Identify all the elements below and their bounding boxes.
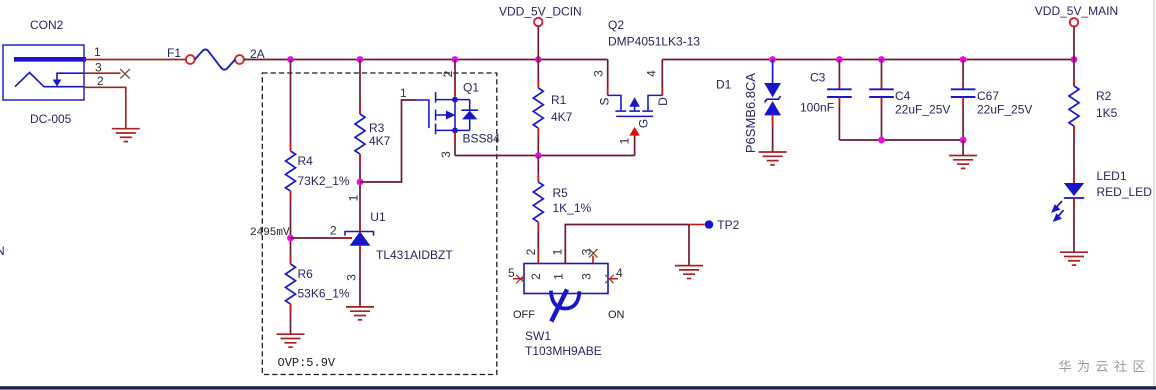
wire rail to C67 xyxy=(962,60,964,90)
svg-text:5: 5 xyxy=(508,266,515,280)
svg-text:D: D xyxy=(656,97,670,106)
test point TP2 xyxy=(689,224,705,226)
svg-text:CON2: CON2 xyxy=(30,18,64,32)
svg-text:VDD_5V_MAIN: VDD_5V_MAIN xyxy=(1035,4,1118,18)
capacitor C4 22uF_25V xyxy=(869,89,894,97)
connector CON2 (DC-005) xyxy=(3,45,86,100)
wire rail to R4 xyxy=(290,60,292,152)
wire Q1 drain to Q2 gate row xyxy=(455,155,635,157)
wire rail to R3 xyxy=(359,60,361,115)
svg-text:DMP4051LK3-13: DMP4051LK3-13 xyxy=(608,35,700,49)
resistor R3 xyxy=(355,114,365,154)
wire TP2 row to ground xyxy=(688,225,690,266)
svg-text:1: 1 xyxy=(347,194,361,201)
capacitor C3 100nF xyxy=(827,89,852,97)
ground (LED1) xyxy=(1060,252,1088,265)
svg-text:1: 1 xyxy=(551,248,565,255)
svg-text:ON: ON xyxy=(608,309,625,321)
svg-text:TL431AIDBZT: TL431AIDBZT xyxy=(376,248,453,262)
svg-text:C4: C4 xyxy=(895,89,911,103)
svg-text:1K5: 1K5 xyxy=(1096,106,1118,120)
svg-text:VDD_5V_DCIN: VDD_5V_DCIN xyxy=(499,5,582,19)
svg-text:华为云社区: 华为云社区 xyxy=(1058,359,1151,374)
right page border xyxy=(1153,0,1155,386)
svg-text:1: 1 xyxy=(94,45,101,59)
svg-text:100nF: 100nF xyxy=(800,101,834,115)
wire C3 bottom xyxy=(838,97,840,140)
bottom schematic frame bar xyxy=(0,386,1156,389)
svg-text:DC-005: DC-005 xyxy=(30,112,72,126)
svg-text:22uF_25V: 22uF_25V xyxy=(895,103,950,117)
svg-text:U1: U1 xyxy=(370,210,386,224)
junction node xyxy=(535,152,542,159)
wire R1 to gate row xyxy=(537,128,539,156)
wire LED1 to ground xyxy=(1073,198,1075,252)
svg-text:R2: R2 xyxy=(1096,89,1112,103)
svg-text:2: 2 xyxy=(330,224,337,238)
svg-text:R6: R6 xyxy=(298,267,314,281)
svg-text:2: 2 xyxy=(524,248,538,255)
svg-text:C3: C3 xyxy=(810,71,826,85)
ground (capacitors) xyxy=(949,156,977,169)
svg-text:3: 3 xyxy=(439,151,453,158)
resistor R6 xyxy=(290,255,292,264)
svg-text:4: 4 xyxy=(645,70,659,77)
svg-text:R4: R4 xyxy=(298,154,314,168)
svg-text:2: 2 xyxy=(441,70,455,77)
svg-text:3: 3 xyxy=(580,273,594,280)
ground (U1) xyxy=(346,307,374,320)
svg-text:R1: R1 xyxy=(551,93,567,107)
svg-text:2: 2 xyxy=(97,74,104,88)
switch SW1 T103MH9ABE xyxy=(524,264,608,294)
wire node to U1 ref pin 2 xyxy=(291,237,353,239)
wire cap bottom row xyxy=(839,139,963,141)
wire node to R5 xyxy=(537,156,539,183)
svg-text:RED_LED: RED_LED xyxy=(1097,185,1153,199)
svg-text:4K7: 4K7 xyxy=(369,134,391,148)
node 2495mV xyxy=(287,235,294,242)
svg-text:D1: D1 xyxy=(716,78,732,92)
SW1 lever xyxy=(551,291,580,309)
OVP dashed box xyxy=(262,73,497,375)
ground (D1) xyxy=(759,152,787,165)
svg-text:4: 4 xyxy=(616,266,623,280)
wire C67 bottom xyxy=(962,97,964,140)
svg-text:F1: F1 xyxy=(167,46,181,60)
svg-text:2: 2 xyxy=(529,273,543,280)
wire rail to C4 xyxy=(881,60,883,90)
wire VDD_5V_MAIN rail xyxy=(662,59,1074,61)
wire gate node to Q1 pin 1 xyxy=(360,100,416,182)
resistor R4 xyxy=(286,151,296,191)
svg-text:4K7: 4K7 xyxy=(551,110,573,124)
wire C4 bottom xyxy=(881,97,883,140)
wire SW1 pin 1 to TP2 xyxy=(565,225,689,264)
op-amp U1 TL431AIDBZT xyxy=(345,232,374,236)
svg-text:TP2: TP2 xyxy=(717,218,739,232)
ground (R6) xyxy=(277,334,305,347)
capacitor C67 22uF_25V xyxy=(951,89,976,97)
svg-text:2495mV: 2495mV xyxy=(250,227,290,239)
wire to ground under C67 xyxy=(962,140,964,156)
ground (CON2 pin 2) xyxy=(112,129,140,142)
wire R6 to ground xyxy=(290,304,292,334)
wire VDD_5V_DCIN rail xyxy=(244,59,608,61)
wire R4 to node xyxy=(290,191,292,264)
svg-text:OVP:5.9V: OVP:5.9V xyxy=(278,356,336,370)
wire R5 to SW1 pin 2 xyxy=(537,222,539,264)
svg-text:1: 1 xyxy=(618,137,632,144)
node gate of Q1 xyxy=(357,179,364,186)
wire R3 to gate node xyxy=(359,154,361,182)
svg-text:3: 3 xyxy=(592,70,606,77)
svg-text:73K2_1%: 73K2_1% xyxy=(298,174,350,188)
resistor R2 xyxy=(1069,86,1079,126)
svg-text:Q2: Q2 xyxy=(608,18,624,32)
wire rail to R2 xyxy=(1073,60,1075,87)
ground (TP2) xyxy=(675,266,703,279)
svg-text:LED1: LED1 xyxy=(1097,169,1127,183)
svg-text:BSS84: BSS84 xyxy=(463,132,501,146)
svg-text:1: 1 xyxy=(400,86,407,100)
svg-text:S: S xyxy=(598,97,612,105)
resistor R5 xyxy=(533,182,543,222)
svg-text:T103MH9ABE: T103MH9ABE xyxy=(525,344,602,358)
svg-text:1: 1 xyxy=(552,273,566,280)
svg-text:22uF_25V: 22uF_25V xyxy=(977,103,1032,117)
wire rail to R1 xyxy=(537,60,539,89)
junction dots on rails xyxy=(287,56,294,63)
wire R2 to LED1 xyxy=(1073,126,1075,183)
svg-text:R3: R3 xyxy=(369,121,385,135)
svg-text:3: 3 xyxy=(345,274,359,281)
svg-text:1K_1%: 1K_1% xyxy=(553,201,592,215)
svg-text:53K6_1%: 53K6_1% xyxy=(298,287,350,301)
svg-text:Q1: Q1 xyxy=(463,81,479,95)
resistor R6 xyxy=(286,264,296,304)
svg-text:N: N xyxy=(0,244,5,258)
wire D1 to ground xyxy=(772,115,774,152)
svg-text:SW1: SW1 xyxy=(525,329,551,343)
wire rail to C3 xyxy=(838,60,840,90)
svg-text:G: G xyxy=(637,119,651,128)
svg-text:R5: R5 xyxy=(553,186,569,200)
svg-text:P6SMB6.8CA: P6SMB6.8CA xyxy=(743,73,758,154)
svg-text:C67: C67 xyxy=(977,89,999,103)
svg-text:OFF: OFF xyxy=(513,309,535,321)
resistor R1 xyxy=(533,88,543,128)
